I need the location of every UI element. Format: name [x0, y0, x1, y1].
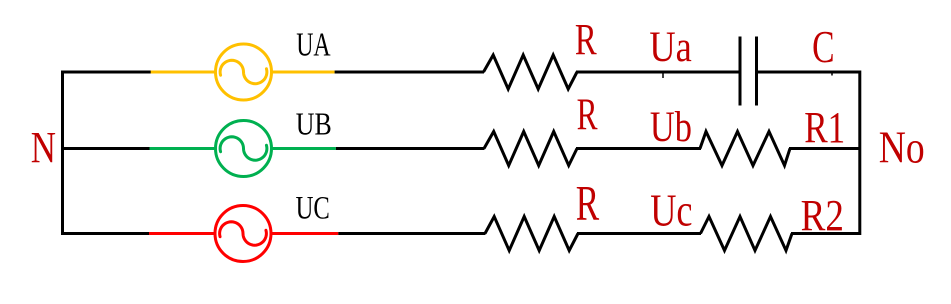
svg-text:R: R [576, 176, 599, 231]
wire phase B green left [150, 147, 217, 150]
node tick C [831, 71, 833, 76]
left bus N [61, 71, 64, 236]
svg-text:R1: R1 [804, 102, 845, 152]
svg-text:N: N [31, 122, 56, 172]
node tick Ua [662, 72, 664, 78]
wire phase A yellow left [151, 71, 216, 74]
capacitor C left plate [739, 37, 742, 106]
source UA sine [220, 60, 267, 83]
svg-text:C: C [812, 21, 834, 72]
svg-text:Ub: Ub [650, 103, 692, 151]
wire phase C mid black [338, 232, 485, 235]
svg-text:UC: UC [296, 191, 330, 227]
wire phase B right black [789, 147, 861, 150]
wire phase C right black [791, 232, 861, 235]
wire phase B green right [271, 147, 336, 150]
svg-text:R: R [575, 14, 597, 64]
resistor R phase A [484, 55, 578, 89]
wire phase C red right [271, 232, 339, 235]
resistor R phase C [485, 217, 578, 251]
wire phase B left black [61, 147, 151, 150]
svg-text:Uc: Uc [650, 185, 692, 236]
right bus No [858, 71, 861, 236]
wire phase A to capacitor [576, 71, 740, 74]
svg-text:R: R [577, 88, 598, 139]
svg-text:Ua: Ua [649, 24, 691, 71]
source UC sine [220, 222, 267, 245]
wire phase A left black [61, 71, 151, 74]
wire phase A mid black [335, 71, 484, 74]
source UC circle [215, 206, 271, 262]
svg-text:UB: UB [296, 107, 332, 142]
svg-text:UA: UA [296, 26, 331, 63]
wire phase C mid2 black [577, 232, 701, 235]
svg-text:No: No [879, 123, 925, 173]
wire phase C red left [149, 232, 216, 235]
wire phase A yellow right [271, 71, 335, 74]
source UA circle [216, 44, 272, 100]
source UB circle [216, 121, 272, 177]
wire phase B mid2 black [576, 147, 701, 150]
resistor R1 [700, 132, 790, 166]
wire phase A capacitor to bus [757, 71, 862, 74]
source UB sine [220, 137, 267, 160]
svg-text:R2: R2 [801, 190, 844, 240]
wire phase C left black [61, 232, 150, 235]
resistor R2 [701, 217, 793, 251]
capacitor C right plate [755, 37, 758, 106]
resistor R phase B [484, 132, 577, 166]
wire phase B mid black [336, 147, 485, 150]
